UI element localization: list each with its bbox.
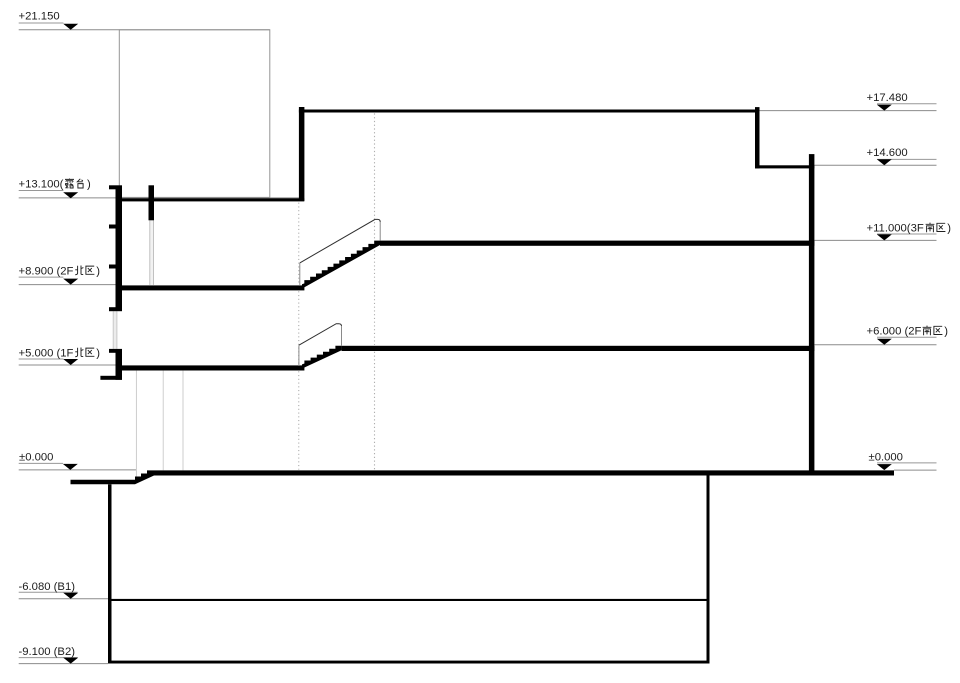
slab +6.000 2F south xyxy=(342,346,815,351)
level line +21.150 xyxy=(19,29,270,31)
slab +8.900 2F north xyxy=(116,285,305,290)
svg-text:): ) xyxy=(87,179,91,191)
wall tick y307 xyxy=(109,307,116,311)
svg-text:+14.600: +14.600 xyxy=(867,147,908,159)
terrace post at +13.100 xyxy=(149,185,155,220)
B1 floor line xyxy=(112,599,707,601)
wall left lower segment xyxy=(116,349,123,380)
kanji 北 xyxy=(75,266,83,275)
upper stair flight with steps xyxy=(302,241,380,289)
level triangle -6.080 xyxy=(63,593,78,599)
svg-text:±0.000: ±0.000 xyxy=(869,451,903,463)
dotted projection line x=298.75 middle xyxy=(298,291,300,364)
level line +14.600 xyxy=(814,164,936,166)
level triangle +6.000 xyxy=(877,339,892,345)
level triangle +14.600 xyxy=(877,159,892,165)
level triangle +8.900 xyxy=(63,279,78,285)
level line +6.000 xyxy=(814,344,936,346)
kanji 南 xyxy=(923,326,932,336)
svg-text:-9.100 (B2): -9.100 (B2) xyxy=(19,646,76,658)
svg-text:±0.000: ±0.000 xyxy=(19,452,53,464)
label underline +8.900 xyxy=(19,276,64,278)
level triangle +17.480 xyxy=(877,105,892,111)
label underline +5.000 xyxy=(19,358,64,360)
label underline ±0.000 left xyxy=(19,462,63,464)
dotted projection line x=374.5 middle xyxy=(374,247,376,345)
dotted projection line x=298.75 lower xyxy=(298,371,300,469)
wall tick y264 xyxy=(109,265,116,269)
level line +11.000 xyxy=(814,239,936,241)
kanji 区 xyxy=(86,348,95,356)
label underline +11.000 xyxy=(877,233,937,235)
level line ±0.000 right xyxy=(894,469,937,471)
level line ±0.000 left xyxy=(19,469,137,471)
svg-text:+13.100(: +13.100( xyxy=(19,179,64,191)
level line +8.900 xyxy=(19,284,116,286)
level line +5.000 xyxy=(19,364,116,366)
level line +13.100 xyxy=(19,197,299,199)
slab +11.000 3F south xyxy=(380,241,814,246)
svg-text:): ) xyxy=(96,265,100,277)
level line +17.480 xyxy=(760,110,937,112)
level triangle +21.150 xyxy=(63,24,78,30)
roof slab +17.480 xyxy=(299,110,760,113)
label underline +6.000 xyxy=(877,336,937,338)
svg-text:): ) xyxy=(947,223,951,235)
dotted projection line x=374.5 upper xyxy=(374,113,376,239)
wall tick y224 xyxy=(109,225,116,229)
wall stub below 1F slab xyxy=(100,376,122,380)
level line -6.080 B1 xyxy=(19,598,108,600)
elevation line x=163.2 below 1F xyxy=(162,371,164,471)
kanji 区 xyxy=(934,326,943,334)
slab +13.100 terrace xyxy=(116,198,305,201)
kanji 区 xyxy=(937,223,946,231)
step slab +14.600 xyxy=(755,165,814,168)
penthouse outline rectangle xyxy=(119,30,269,198)
dotted projection line x=298.75 upper xyxy=(298,203,300,285)
upper stair railing xyxy=(300,219,380,263)
roof right wall xyxy=(755,107,760,168)
svg-text:+8.900 (2F: +8.900 (2F xyxy=(19,265,74,277)
label underline -9.100 xyxy=(19,657,78,659)
kanji 南 xyxy=(926,223,935,233)
label underline +13.100 xyxy=(19,190,64,192)
svg-text:): ) xyxy=(96,347,100,359)
svg-text:+5.000 (1F: +5.000 (1F xyxy=(19,347,74,359)
level triangle ±0.000 right xyxy=(877,464,892,470)
svg-text:+6.000 (2F: +6.000 (2F xyxy=(867,326,922,338)
wall tick at +13.100 xyxy=(109,185,116,189)
slab +5.000 1F north xyxy=(116,365,305,370)
level triangle -9.100 xyxy=(63,658,78,664)
dotted projection line x=374.5 lower xyxy=(374,352,376,470)
wall left upper segment xyxy=(116,185,123,311)
ground slab with entrance steps xyxy=(71,470,895,484)
level triangle ±0.000 left xyxy=(63,464,78,470)
label underline +17.480 xyxy=(877,103,937,105)
elevation line x=183 below 1F xyxy=(182,371,184,471)
kanji 区 xyxy=(86,266,95,274)
svg-text:+11.000(3F: +11.000(3F xyxy=(867,223,924,235)
upper block left wall xyxy=(299,107,305,201)
elevation line x=136.4 below 1F xyxy=(135,371,137,477)
label underline +14.600 xyxy=(877,158,937,160)
svg-text:+21.150: +21.150 xyxy=(19,10,60,22)
basement right wall xyxy=(707,475,710,663)
lower stair flight with steps xyxy=(302,346,342,369)
label underline -6.080 xyxy=(19,591,78,593)
glass band in left wall gap xyxy=(113,311,117,349)
B2 floor line xyxy=(108,661,710,664)
kanji 北 xyxy=(75,348,83,357)
level triangle +11.000 xyxy=(877,234,892,240)
label underline +21.150 xyxy=(19,22,64,24)
lower stair railing xyxy=(299,324,342,346)
level triangle +13.100 xyxy=(63,192,78,198)
kanji 台 xyxy=(77,179,83,188)
svg-text:-6.080 (B1): -6.080 (B1) xyxy=(19,581,76,593)
glass railing band below terrace post xyxy=(150,220,154,285)
label underline ±0.000 right xyxy=(877,462,937,464)
svg-text:+17.480: +17.480 xyxy=(867,92,908,104)
level triangle +5.000 xyxy=(63,359,78,365)
level line -9.100 B2 xyxy=(19,663,108,665)
right outer wall xyxy=(809,154,815,471)
kanji 露 xyxy=(65,179,74,189)
basement left wall xyxy=(108,484,112,663)
svg-text:): ) xyxy=(944,326,948,338)
wall tick at +5.000 xyxy=(109,349,116,353)
